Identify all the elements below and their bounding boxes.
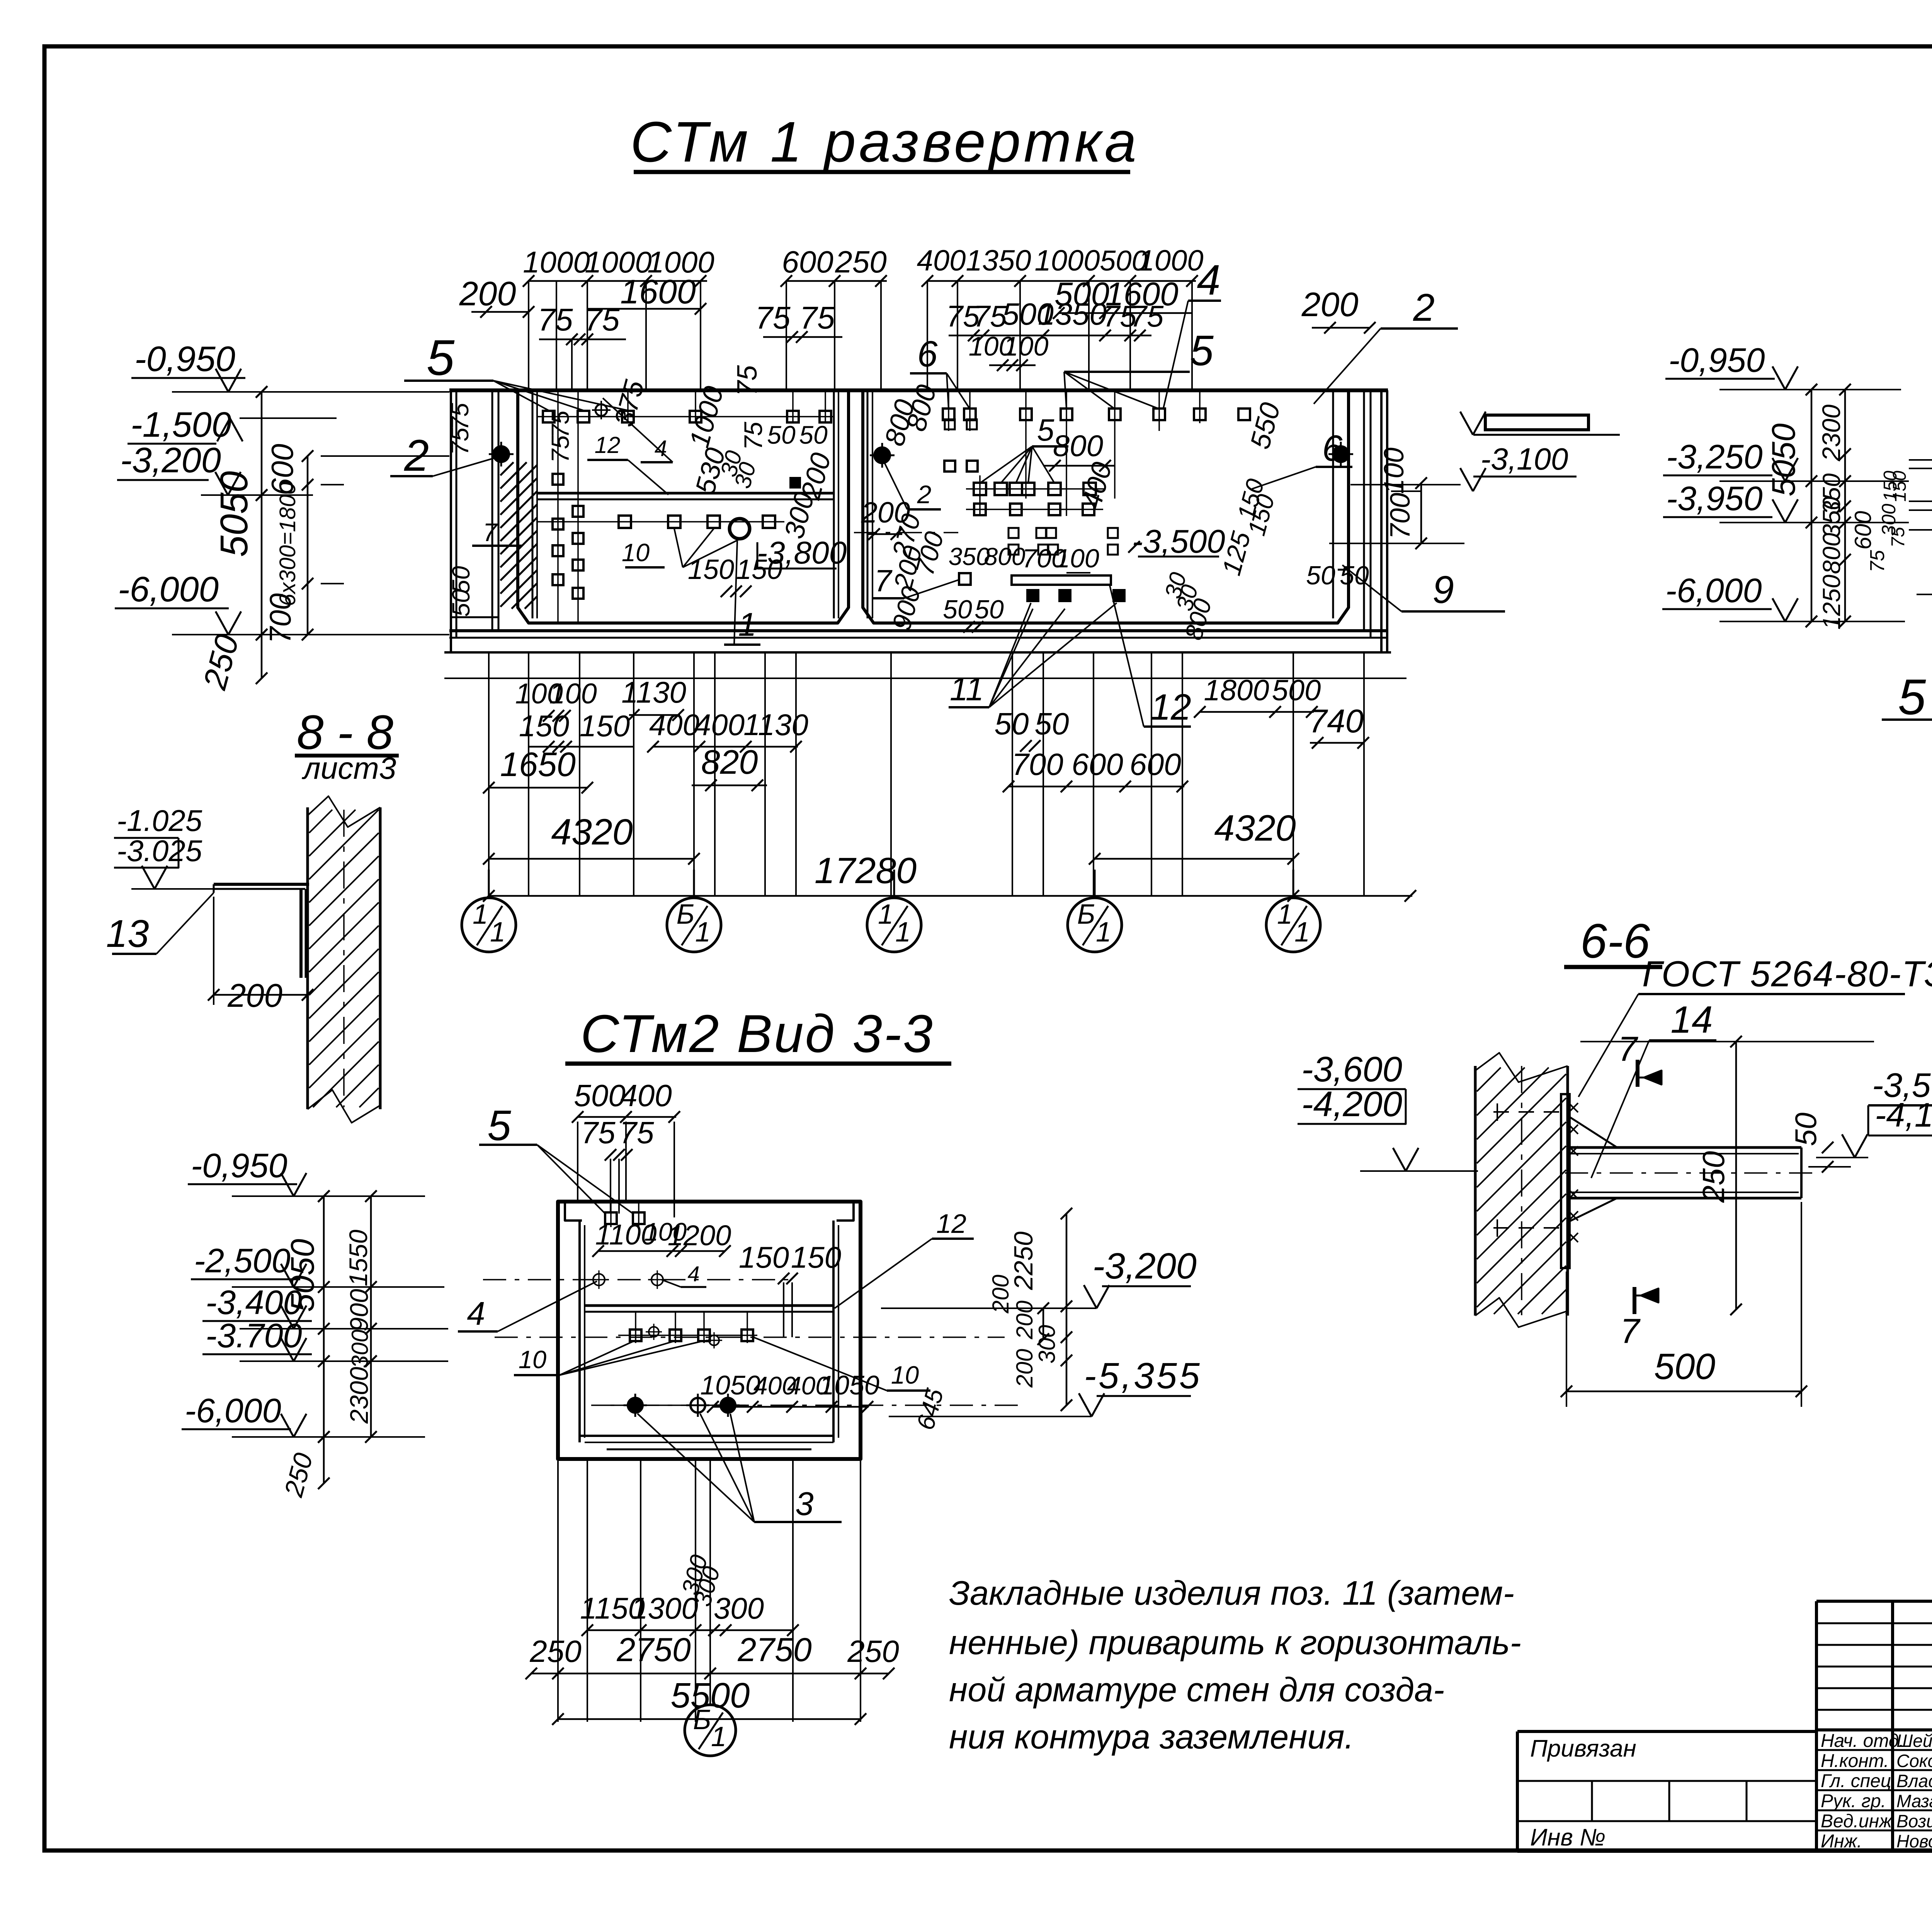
- svg-text:-3,200: -3,200: [1092, 1246, 1197, 1287]
- СТм1 panel 2 anchor circles: [870, 442, 1353, 468]
- svg-text:7: 7: [1618, 1030, 1638, 1069]
- Вид 3-3 label 12: [835, 1209, 974, 1308]
- svg-text:Б: Б: [693, 1704, 711, 1735]
- svg-text:1: 1: [490, 917, 505, 948]
- svg-text:лист3: лист3: [302, 751, 396, 785]
- svg-text:400: 400: [694, 708, 745, 742]
- svg-text:1130: 1130: [621, 675, 686, 709]
- label 5 Вид 3-3: [479, 1102, 633, 1214]
- svg-text:12: 12: [595, 432, 621, 458]
- svg-text:Вед.инж: Вед.инж: [1821, 1811, 1893, 1832]
- label 2 left: [390, 431, 501, 480]
- axis circle 1/1 b: [867, 870, 921, 952]
- svg-text:-4,170: -4,170: [1875, 1096, 1932, 1134]
- dim 100 100 small panel2: [969, 331, 1049, 371]
- svg-text:200: 200: [1012, 1349, 1037, 1388]
- 8-8 angle bracket: [214, 884, 309, 978]
- note text about earthing: [949, 1574, 1521, 1756]
- svg-text:12: 12: [936, 1209, 966, 1239]
- label 4 top panel2: [1163, 256, 1221, 410]
- dims 1650 820 below band: [483, 743, 767, 793]
- Вид 3-3 label 4 left: [458, 1281, 597, 1332]
- svg-text:1: 1: [1294, 917, 1310, 948]
- dim 1600: [587, 272, 706, 315]
- svg-text:50: 50: [799, 420, 828, 449]
- svg-text:600: 600: [782, 245, 833, 279]
- Вид 3-3 left vertical dims: [279, 1190, 377, 1500]
- svg-text:10: 10: [519, 1345, 546, 1374]
- axis circle 1/1 c: [1266, 870, 1320, 952]
- svg-text:1: 1: [695, 917, 711, 948]
- svg-text:400: 400: [620, 1078, 672, 1113]
- svg-text:Привязан: Привязан: [1530, 1735, 1636, 1762]
- 6-6 section mark 7 top: [1618, 1030, 1662, 1087]
- svg-text:700: 700: [1385, 493, 1416, 539]
- svg-text:75: 75: [1130, 299, 1164, 333]
- svg-text:75: 75: [755, 300, 791, 335]
- 6-6 wall with hatching: [1475, 1053, 1568, 1327]
- Вид 3-3 label 3 with leaders: [638, 1414, 842, 1522]
- svg-text:-0,950: -0,950: [191, 1146, 287, 1185]
- Вид 3-3 dims 150 150: [739, 1240, 841, 1337]
- label 7 panel2: [872, 563, 959, 598]
- svg-text:-1.025: -1.025: [117, 804, 202, 838]
- svg-text:СТм 1 развертка: СТм 1 развертка: [630, 110, 1139, 174]
- svg-text:1: 1: [1277, 899, 1293, 930]
- svg-text:1: 1: [878, 899, 893, 930]
- svg-text:75: 75: [1888, 527, 1908, 548]
- label 1 panel1: [724, 541, 760, 645]
- axis circle Б/1 b: [1068, 870, 1122, 952]
- label 9 right end: [1342, 565, 1505, 611]
- svg-text:75: 75: [620, 1115, 654, 1150]
- svg-text:-2,500: -2,500: [194, 1241, 291, 1280]
- svg-text:5: 5: [1037, 413, 1054, 447]
- svg-text:-3,100: -3,100: [1481, 442, 1568, 476]
- СТм1 band bottom chords: [444, 631, 1406, 678]
- label 7 panel1: [472, 518, 522, 546]
- svg-text:150: 150: [791, 1240, 841, 1274]
- svg-text:1050: 1050: [700, 1370, 760, 1400]
- 6-6 label ГОСТ 5264-80-ТЗ: [1578, 953, 1932, 1097]
- svg-text:800: 800: [1818, 533, 1845, 574]
- svg-text:50: 50: [767, 420, 796, 449]
- svg-text:1000: 1000: [1138, 244, 1203, 277]
- Вид 3-3 top squares: [605, 1212, 645, 1224]
- svg-text:900: 900: [345, 1289, 373, 1331]
- 6-6 anchor dashed lines: [1493, 1103, 1561, 1237]
- СТм1 left end verticals: [451, 390, 498, 652]
- svg-text:1: 1: [711, 1721, 726, 1752]
- svg-text:4: 4: [467, 1296, 485, 1332]
- СТм1 panel 2 darkened plates poz.11: [1026, 589, 1126, 602]
- svg-text:600: 600: [1071, 747, 1123, 781]
- title block signature labels: [1821, 1731, 1932, 1852]
- svg-text:Н.конт.: Н.конт.: [1821, 1751, 1889, 1771]
- svg-text:1: 1: [1096, 917, 1111, 948]
- svg-text:150: 150: [519, 709, 569, 743]
- svg-text:5: 5: [1190, 327, 1214, 375]
- svg-text:Гл. спец: Гл. спец: [1821, 1771, 1891, 1791]
- svg-text:5050: 5050: [284, 1239, 321, 1312]
- svg-text:7: 7: [483, 518, 498, 546]
- Вид 4-4 label 5 with fan leaders: [1882, 497, 1932, 725]
- svg-text:100: 100: [1003, 331, 1049, 361]
- СТм1 panel 2 outline: [863, 390, 1349, 623]
- 8-8 dim 200: [208, 897, 313, 1014]
- svg-text:1600: 1600: [620, 272, 696, 311]
- svg-text:740: 740: [1309, 703, 1364, 740]
- Вид 3-3 bottom anchor circles: [624, 1394, 740, 1417]
- Вид 3-3 bottom dims 250 2750 2750 250: [526, 1631, 899, 1679]
- title 8-8 лист3: [295, 706, 399, 785]
- svg-text:ния контура заземления.: ния контура заземления.: [949, 1718, 1354, 1756]
- label 2 right end: [1314, 286, 1458, 404]
- svg-text:-6,000: -6,000: [118, 570, 219, 609]
- Вид 4-4 left levels: [1662, 341, 1909, 627]
- Вид 3-3 label 4 inner: [662, 1261, 706, 1287]
- svg-text:-3.025: -3.025: [117, 834, 202, 868]
- svg-text:2750: 2750: [616, 1631, 690, 1668]
- svg-text:Закладные изделия поз. 11 (з: Закладные изделия поз. 11 (затем-: [949, 1574, 1514, 1612]
- svg-text:1130: 1130: [743, 708, 808, 742]
- dim 4320 left: [483, 812, 700, 865]
- svg-text:Б: Б: [677, 899, 695, 930]
- svg-text:-5,355: -5,355: [1084, 1355, 1202, 1396]
- svg-text:13: 13: [106, 912, 149, 955]
- svg-text:100: 100: [1379, 448, 1410, 494]
- dim 1000 1000 1000 above panel1: [523, 245, 714, 390]
- level -6,000: [115, 570, 449, 640]
- svg-text:100: 100: [549, 678, 597, 710]
- 6-6 embedded vertical plate: [1561, 1094, 1570, 1268]
- svg-text:600: 600: [1129, 747, 1181, 781]
- level -3,500 panel2: [1128, 523, 1225, 560]
- svg-text:820: 820: [701, 743, 758, 781]
- Вид 3-3 label 10 right: [753, 1337, 930, 1391]
- svg-text:600: 600: [1850, 511, 1876, 550]
- Вид 3-3 shelf line: [585, 1306, 833, 1312]
- svg-text:250: 250: [1696, 1151, 1731, 1203]
- svg-text:ГОСТ 5264-80-ТЗ: ГОСТ 5264-80-ТЗ: [1642, 953, 1932, 994]
- svg-text:400: 400: [649, 708, 699, 742]
- svg-text:-0,950: -0,950: [1668, 341, 1765, 379]
- label 5 panel2 top: [1064, 327, 1214, 409]
- dims 400 1350 1000 500 1000 above panel2: [917, 244, 1204, 390]
- level -3,100 right of band: [1391, 412, 1620, 491]
- extension verticals to dim lines: [489, 652, 1364, 897]
- dims 1800 500 740 below band right: [1194, 674, 1369, 749]
- svg-text:СТм2 Вид 3-3: СТм2 Вид 3-3: [580, 1004, 934, 1064]
- svg-text:1350: 1350: [966, 244, 1031, 277]
- svg-text:250: 250: [847, 1634, 899, 1668]
- dims 500 1600 row2 panel2: [1053, 276, 1192, 319]
- svg-text:1: 1: [738, 606, 756, 643]
- svg-text:Нач. отд.: Нач. отд.: [1821, 1731, 1904, 1751]
- label 10 panel1 with leaders: [622, 529, 740, 567]
- svg-text:50: 50: [943, 595, 972, 624]
- Вид 3-3 mid circles: [590, 1270, 667, 1289]
- svg-text:5: 5: [487, 1102, 511, 1149]
- svg-text:4320: 4320: [551, 812, 633, 853]
- svg-text:Инж.: Инж.: [1821, 1831, 1862, 1852]
- svg-text:200: 200: [1301, 285, 1359, 323]
- 6-6 levels -3,600 -4,200 left: [1298, 1050, 1478, 1171]
- svg-text:11: 11: [950, 671, 984, 708]
- svg-text:5050: 5050: [213, 471, 256, 557]
- 6-6 horizontal bracket plates: [1565, 1117, 1816, 1221]
- svg-text:250: 250: [835, 245, 886, 279]
- svg-text:12: 12: [1150, 687, 1191, 728]
- label 11 with leaders to darkened plates: [949, 603, 1117, 708]
- СТм1 right end verticals: [1338, 390, 1387, 652]
- label 6 right: [1252, 428, 1352, 489]
- Вид 3-3 right rotated dims: [911, 1208, 1072, 1433]
- СТм1 panel 1 plate squares below shelf: [619, 477, 801, 539]
- 6-6 weld x-marks: [1569, 1103, 1578, 1242]
- title block outer and grid: [1816, 1601, 1932, 1851]
- Вид 4-4 left extension lines: [1909, 460, 1932, 594]
- svg-text:10: 10: [622, 538, 650, 567]
- svg-text:-4,200: -4,200: [1301, 1084, 1402, 1124]
- dims 100 100 / 1130 below band: [515, 675, 686, 722]
- Вид 3-3 dims 1050 400 400 1050: [700, 1370, 879, 1413]
- title block привязан box: [1517, 1731, 1816, 1851]
- svg-text:75: 75: [581, 1115, 616, 1150]
- svg-text:1: 1: [473, 899, 488, 930]
- svg-text:-6,000: -6,000: [1665, 571, 1762, 609]
- dim 75 75 panel1 right: [755, 300, 842, 343]
- svg-text:2: 2: [1413, 286, 1435, 329]
- label 4 panel1: [603, 398, 673, 462]
- svg-text:250: 250: [529, 1634, 581, 1668]
- svg-text:150: 150: [739, 1240, 789, 1274]
- svg-text:Новогородцева: Новогородцева: [1896, 1831, 1932, 1851]
- label 5 panel2 inner: [980, 413, 1068, 483]
- rotated dims inside panel2: [861, 381, 1369, 643]
- svg-text:1250: 1250: [1818, 574, 1845, 630]
- svg-text:Б: Б: [1077, 899, 1095, 930]
- svg-text:50: 50: [1306, 561, 1335, 590]
- title СТм2 Вид 3-3: [565, 1004, 951, 1064]
- 6-6 dim 250 rotated: [1580, 1036, 1874, 1315]
- svg-text:-3,200: -3,200: [120, 441, 221, 480]
- dim 4320 right: [1089, 808, 1299, 865]
- title block марки line: [0, 0, 0, 0]
- Вид 3-3 top dims 500 400: [572, 1078, 680, 1217]
- level -3,200: [117, 441, 313, 501]
- Вид 3-3 axis circle Б/1: [685, 1461, 736, 1756]
- svg-text:ненные) приварить к горизон: ненные) приварить к горизонталь-: [949, 1623, 1521, 1662]
- svg-text:Сокольская: Сокольская: [1896, 1751, 1932, 1771]
- svg-text:50: 50: [1340, 561, 1369, 590]
- svg-text:2: 2: [404, 431, 429, 480]
- title 6-6: [1564, 914, 1662, 968]
- level -1,500: [128, 405, 337, 444]
- dim 75 75 panel1: [537, 302, 626, 390]
- svg-text:75: 75: [546, 435, 574, 463]
- svg-text:-6,000: -6,000: [185, 1391, 281, 1430]
- svg-text:500: 500: [1272, 674, 1321, 707]
- Вид 3-3 bottom extension verticals: [558, 1461, 861, 1722]
- СТм1 panel 1 shelf line: [537, 493, 834, 499]
- title СТм1 развертка: [630, 110, 1139, 174]
- svg-text:3: 3: [795, 1486, 813, 1522]
- svg-text:50: 50: [1789, 1113, 1823, 1146]
- svg-text:75: 75: [446, 403, 474, 431]
- svg-text:2300: 2300: [345, 1367, 373, 1424]
- svg-text:1000: 1000: [1034, 244, 1100, 277]
- Вид 3-3 level -5,355 right: [889, 1355, 1202, 1416]
- 6-6 section mark 7 bottom: [1620, 1287, 1658, 1351]
- Вид 3-3 internal extension lines: [611, 1202, 757, 1405]
- Вид 3-3 squares row below shelf: [630, 1324, 753, 1348]
- svg-text:1: 1: [895, 917, 911, 948]
- svg-text:Мазалова: Мазалова: [1896, 1791, 1932, 1811]
- svg-text:-3,500: -3,500: [1132, 523, 1225, 560]
- svg-text:1650: 1650: [500, 745, 576, 783]
- svg-text:-3,950: -3,950: [1666, 479, 1763, 518]
- label 13: [106, 893, 214, 955]
- dim 200 right end: [1301, 285, 1376, 334]
- svg-text:-0,950: -0,950: [134, 339, 235, 379]
- СТм1 panel 1 anchor circle: [489, 442, 514, 466]
- svg-text:700: 700: [1012, 747, 1063, 781]
- svg-text:50: 50: [447, 589, 475, 617]
- svg-text:1550: 1550: [344, 1229, 372, 1286]
- svg-text:500: 500: [574, 1078, 625, 1113]
- Вид 3-3 inner wall lines: [580, 1221, 838, 1449]
- svg-text:75: 75: [732, 365, 763, 396]
- svg-text:75: 75: [537, 302, 573, 337]
- svg-text:Рук. гр.: Рук. гр.: [1821, 1791, 1886, 1811]
- svg-text:800: 800: [1053, 429, 1103, 463]
- 8-8 levels -1.025 -3.025: [114, 804, 214, 889]
- right end vertical dims 100 700: [1329, 448, 1464, 549]
- svg-text:500: 500: [1654, 1346, 1716, 1387]
- svg-text:75: 75: [799, 300, 835, 335]
- svg-text:100: 100: [1055, 544, 1099, 573]
- svg-text:6x300=1800: 6x300=1800: [275, 482, 300, 606]
- level -0,950 left: [131, 339, 449, 398]
- dims 50 50 700 600 600 below panel2: [995, 706, 1188, 792]
- label 2 panel2 left: [882, 458, 941, 509]
- svg-text:4: 4: [1197, 256, 1220, 304]
- svg-text:Возианов: Возианов: [1896, 1811, 1932, 1831]
- 6-6 levels -3,570 -4,170: [1816, 1066, 1932, 1158]
- Вид 3-3 dims 1100 100 1200: [592, 1217, 731, 1257]
- svg-text:150: 150: [580, 709, 630, 743]
- svg-text:200: 200: [459, 274, 516, 313]
- svg-text:7: 7: [1620, 1312, 1641, 1351]
- axis circle Б/1 a: [667, 870, 721, 952]
- dims 75 75 500 1350 row3 panel2: [946, 297, 1164, 341]
- СТм1 panel 2 earthing plate: [1012, 575, 1111, 585]
- СТм1 left vertical dim 5050: [196, 386, 267, 693]
- СТм1 panel internal extension lines: [537, 390, 1200, 623]
- svg-text:75: 75: [584, 302, 620, 337]
- svg-text:150: 150: [688, 554, 734, 585]
- level -3,800 panel1: [757, 535, 847, 570]
- label 6 panel2: [910, 334, 970, 409]
- svg-text:75: 75: [546, 410, 574, 438]
- svg-text:-3,600: -3,600: [1301, 1050, 1402, 1089]
- svg-text:5050: 5050: [1765, 423, 1802, 496]
- svg-text:9: 9: [1432, 568, 1454, 611]
- svg-text:75: 75: [739, 422, 767, 450]
- Вид 3-3 label 10 left: [514, 1341, 702, 1375]
- svg-text:ной арматуре стен для соз: ной арматуре стен для созда-: [949, 1670, 1444, 1709]
- svg-text:800: 800: [984, 543, 1026, 570]
- Вид 3-3 level -3,200 right: [881, 1246, 1197, 1308]
- svg-text:200: 200: [227, 977, 282, 1014]
- axis circle 1/1 a: [462, 870, 516, 952]
- dim 600 250 above panel1: [781, 245, 887, 390]
- СТм1 panel 1 plate squares left cluster: [553, 474, 583, 599]
- svg-text:700: 700: [263, 593, 297, 644]
- label 12 panel2: [1110, 586, 1191, 728]
- 6-6 dim 50 rotated: [1789, 1113, 1851, 1173]
- svg-text:5: 5: [1898, 669, 1926, 725]
- svg-text:-1,500: -1,500: [131, 405, 231, 444]
- svg-text:75: 75: [446, 427, 474, 455]
- svg-text:Власенко: Власенко: [1896, 1771, 1932, 1791]
- svg-text:4320: 4320: [1214, 808, 1296, 849]
- СТм1 panel 2 plate squares: [943, 409, 1250, 585]
- svg-text:400: 400: [917, 244, 966, 277]
- 8-8 wall centerline: [343, 810, 345, 1107]
- Вид 3-3 bottom dims 1150 1300 300: [580, 1552, 799, 1636]
- Вид 3-3 top dims 75 75: [581, 1115, 654, 1214]
- floating slab right of band: [1485, 415, 1588, 430]
- СТм1 left vertical dim 600 / 6x300=1800 / 700: [263, 444, 449, 644]
- dim 200 top left: [459, 274, 534, 318]
- Вид 3-3 bottom dim 5500: [552, 1676, 866, 1725]
- Вид 3-3 outer outline: [558, 1202, 861, 1459]
- svg-text:200: 200: [1012, 1301, 1037, 1340]
- label 12 panel1: [587, 432, 668, 495]
- svg-text:50: 50: [975, 595, 1004, 624]
- label 5 panel1: [404, 329, 628, 410]
- svg-text:4: 4: [687, 1261, 699, 1286]
- svg-text:6: 6: [1322, 428, 1343, 469]
- 6-6 label 14: [1591, 998, 1716, 1178]
- svg-text:75: 75: [1866, 550, 1889, 572]
- svg-text:50: 50: [1035, 706, 1069, 741]
- svg-text:2: 2: [917, 480, 932, 509]
- svg-text:2750: 2750: [737, 1631, 811, 1668]
- svg-text:150: 150: [736, 554, 782, 585]
- svg-text:1000: 1000: [523, 245, 590, 279]
- Вид 3-3 left levels: [182, 1146, 448, 1443]
- svg-text:1050: 1050: [819, 1370, 879, 1400]
- svg-text:10: 10: [891, 1361, 919, 1389]
- dims 150 150 400 400 1130 below band: [519, 708, 808, 752]
- Вид 3-3 centerlines: [483, 1280, 1020, 1405]
- svg-text:150: 150: [1889, 471, 1910, 502]
- svg-text:2300: 2300: [1817, 404, 1845, 461]
- svg-text:14: 14: [1670, 998, 1713, 1041]
- svg-text:300: 300: [714, 1591, 764, 1625]
- dim 17280 overall: [483, 850, 1416, 902]
- 6-6 dim 500: [1561, 1202, 1807, 1407]
- svg-text:-3,250: -3,250: [1666, 438, 1763, 476]
- СТм1 panel 1 outline: [518, 390, 849, 623]
- svg-text:4: 4: [655, 436, 667, 461]
- svg-text:Инв №: Инв №: [1530, 1824, 1605, 1851]
- СТм1 panel 1 embedded plate squares top row: [543, 401, 831, 422]
- svg-text:Шейко: Шейко: [1896, 1731, 1932, 1751]
